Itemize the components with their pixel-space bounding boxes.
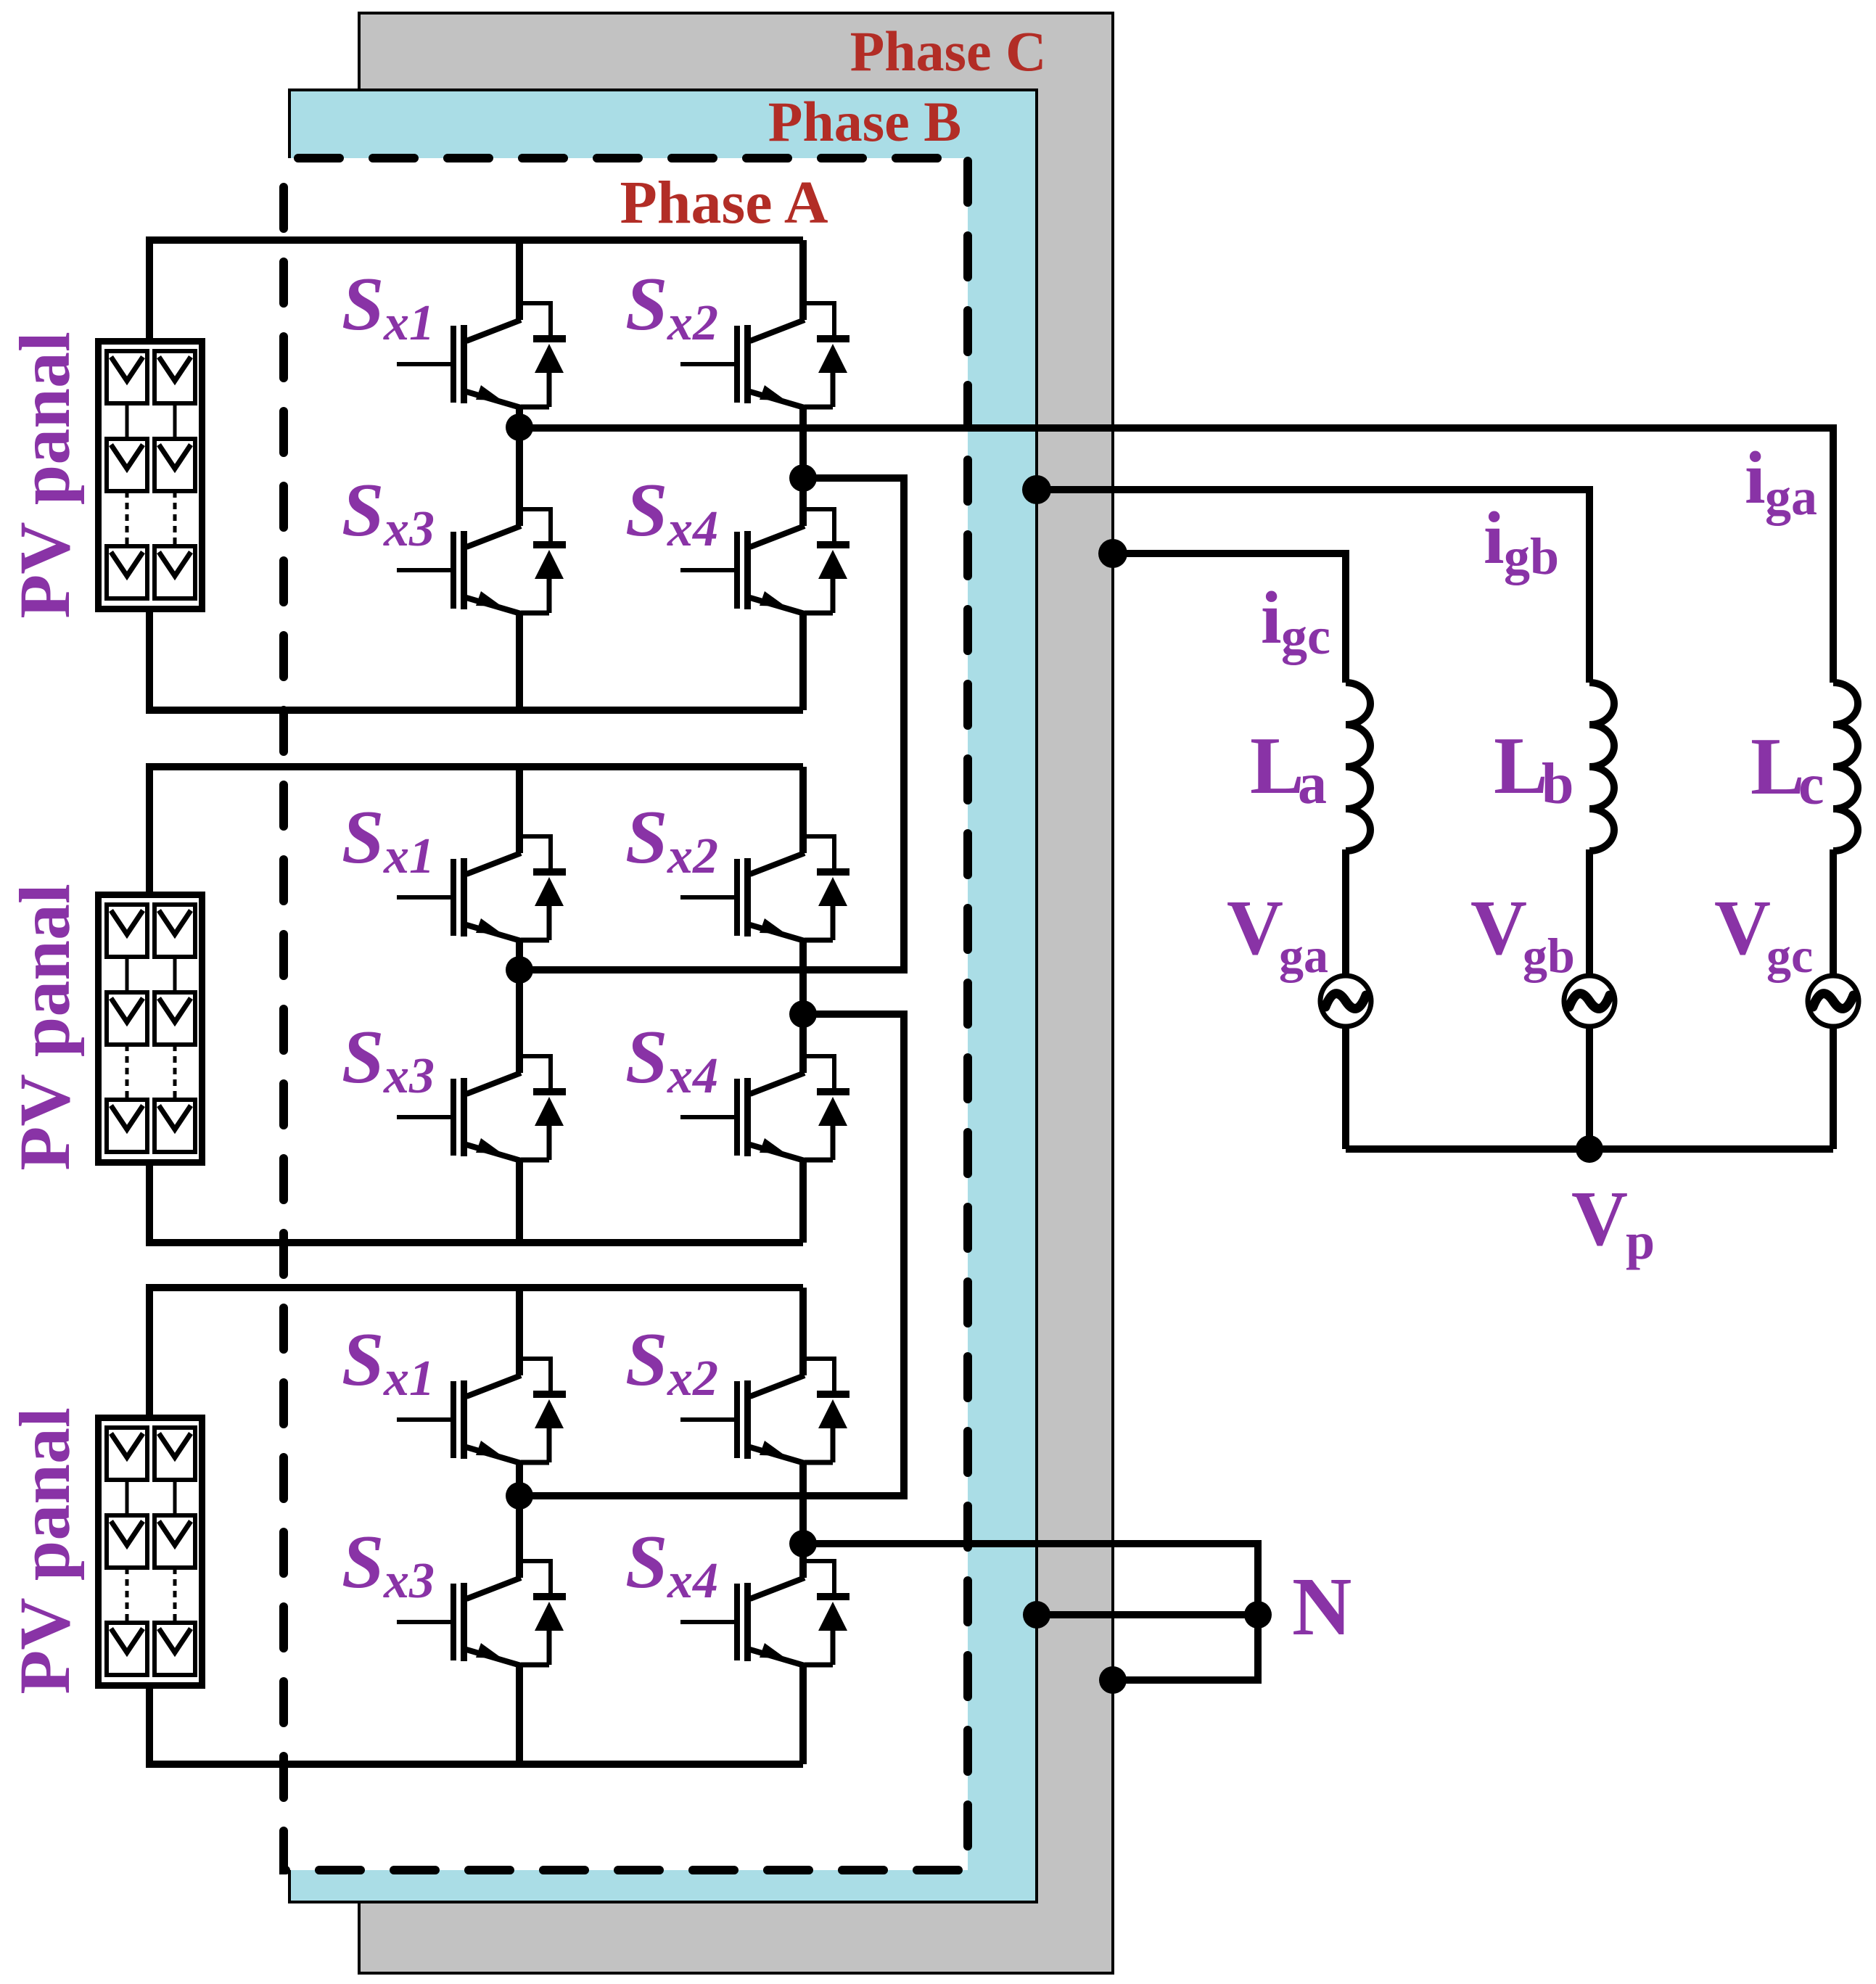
node: phase B neutral tap — [1023, 1601, 1050, 1629]
label Sx2 cell 1 — [625, 261, 718, 351]
svg-text:S: S — [342, 1317, 384, 1401]
svg-text:S: S — [625, 794, 667, 879]
svg-text:S: S — [625, 467, 667, 552]
wire: phase C output to inductor — [1113, 553, 1346, 683]
label Vp — [1571, 1176, 1655, 1270]
svg-text:a: a — [1298, 752, 1327, 816]
svg-text:L: L — [1250, 721, 1304, 811]
svg-text:S: S — [625, 1317, 667, 1401]
svg-text:x1: x1 — [383, 1351, 435, 1407]
wire: DC- rail cell 3 — [149, 1687, 803, 1764]
svg-text:S: S — [342, 467, 384, 552]
svg-text:V: V — [1470, 885, 1527, 971]
node: cell 1 left midpoint — [506, 413, 533, 441]
svg-text:S: S — [625, 261, 667, 346]
svg-text:L: L — [1494, 721, 1548, 811]
label La — [1250, 721, 1327, 816]
IGBT Sx1 cell 2 — [397, 836, 566, 941]
svg-text:ga: ga — [1765, 468, 1817, 526]
svg-text:x4: x4 — [667, 501, 718, 557]
wire: right leg segments cell 1 — [799, 240, 807, 710]
Phase B region — [289, 90, 1037, 1902]
IGBT Sx3 cell 2 — [397, 1056, 566, 1161]
svg-text:S: S — [342, 794, 384, 879]
svg-text:i: i — [1261, 577, 1282, 659]
svg-text:V: V — [1227, 885, 1283, 971]
wire: phase B output to inductor — [1037, 490, 1589, 683]
svg-text:gc: gc — [1766, 928, 1813, 983]
label Sx3 cell 3 — [342, 1519, 435, 1609]
svg-text:Phase A: Phase A — [620, 169, 828, 236]
svg-text:PV panal: PV panal — [4, 884, 85, 1171]
wire: DC+ rail cell 3 — [149, 1288, 803, 1415]
wire: left leg segments cell 1 — [516, 240, 523, 710]
Phase C region — [359, 13, 1113, 1973]
IGBT Sx2 cell 2 — [680, 836, 849, 941]
svg-text:PV panal: PV panal — [4, 332, 85, 619]
svg-text:gb: gb — [1504, 527, 1559, 585]
svg-text:S: S — [625, 1014, 667, 1099]
svg-text:S: S — [625, 1519, 667, 1604]
label Sx4 cell 1 — [625, 467, 718, 557]
IGBT Sx3 cell 1 — [397, 509, 566, 614]
svg-text:x1: x1 — [383, 828, 435, 884]
IGBT Sx1 cell 3 — [397, 1359, 566, 1463]
node: cell 2 left midpoint — [506, 956, 533, 984]
label Sx1 cell 3 — [342, 1317, 435, 1407]
wire: right leg segments cell 2 — [799, 767, 807, 1243]
label Sx1 cell 2 — [342, 794, 435, 884]
IGBT Sx4 cell 1 — [680, 509, 849, 614]
svg-text:S: S — [342, 1014, 384, 1099]
svg-text:i: i — [1484, 497, 1505, 580]
label Vgc — [1714, 885, 1813, 983]
svg-text:x2: x2 — [667, 828, 718, 884]
node: phase C tap — [1098, 539, 1127, 568]
svg-text:gb: gb — [1523, 928, 1575, 983]
AC source Vga — [1320, 976, 1371, 1026]
node: cell 3 left midpoint — [506, 1482, 533, 1510]
label Vgb — [1470, 885, 1575, 983]
svg-text:x3: x3 — [383, 1048, 435, 1104]
node: phase B tap — [1022, 475, 1051, 504]
node: cell 3 right midpoint — [789, 1530, 817, 1557]
wire: V gc to neutral rail — [1830, 1026, 1837, 1149]
wire: phase A output to inductor — [519, 428, 1833, 683]
label Sx1 cell 1 — [342, 261, 435, 351]
label Sx4 cell 2 — [625, 1014, 718, 1104]
PV panel 3 — [99, 1418, 202, 1686]
wire: DC- rail cell 2 — [149, 1163, 803, 1243]
svg-text:ga: ga — [1279, 928, 1328, 983]
wire: grid neutral rail — [1346, 1145, 1833, 1153]
label iga — [1745, 437, 1817, 526]
wire: La to source — [1342, 849, 1349, 977]
label Vga — [1227, 885, 1328, 983]
wire: neutral branch to phase B rail — [1037, 1611, 1258, 1618]
svg-text:PV panal: PV panal — [4, 1407, 85, 1695]
inductor La — [1346, 683, 1370, 851]
svg-text:x3: x3 — [383, 1553, 435, 1609]
svg-text:x4: x4 — [667, 1553, 718, 1609]
Phase A region (dashed) — [284, 158, 968, 1870]
node: cell 1 right midpoint — [789, 464, 817, 492]
svg-text:V: V — [1714, 885, 1771, 971]
inductor Lb — [1589, 683, 1614, 851]
label Sx4 cell 3 — [625, 1519, 718, 1609]
label Sx2 cell 3 — [625, 1317, 718, 1407]
wire: DC+ rail cell 2 — [149, 767, 803, 892]
svg-text:c: c — [1798, 753, 1824, 817]
svg-text:gc: gc — [1281, 607, 1330, 665]
svg-text:V: V — [1571, 1176, 1628, 1262]
svg-text:x4: x4 — [667, 1048, 718, 1104]
node: N junction — [1244, 1601, 1272, 1629]
svg-text:i: i — [1745, 437, 1766, 519]
svg-text:N: N — [1292, 1560, 1352, 1652]
label igb — [1484, 497, 1559, 585]
AC source Vgb — [1564, 976, 1615, 1026]
IGBT Sx4 cell 3 — [680, 1561, 849, 1666]
wire: cell2 right mid to cell3 left mid — [519, 1014, 904, 1496]
svg-text:x1: x1 — [383, 295, 435, 351]
label Sx2 cell 2 — [625, 794, 718, 884]
svg-text:L: L — [1750, 722, 1805, 812]
wire: DC+ rail cell 1 — [149, 240, 803, 338]
wire: V gb to neutral rail — [1586, 1026, 1593, 1149]
AC source Vgc — [1808, 976, 1859, 1026]
wire: Lb to source — [1586, 849, 1593, 977]
label igc — [1261, 577, 1330, 665]
node: cell 2 right midpoint — [789, 1000, 817, 1028]
node: Vp junction — [1576, 1135, 1603, 1163]
svg-text:x3: x3 — [383, 501, 435, 557]
IGBT Sx3 cell 3 — [397, 1561, 566, 1666]
wire: cell1 right mid to cell2 left mid — [519, 478, 904, 970]
wire: right leg segments cell 3 — [799, 1288, 807, 1764]
svg-text:x2: x2 — [667, 1351, 718, 1407]
IGBT Sx2 cell 3 — [680, 1359, 849, 1463]
label Sx3 cell 1 — [342, 467, 435, 557]
inductor Lc — [1833, 683, 1858, 851]
label Lc — [1750, 722, 1824, 817]
wire: left leg segments cell 3 — [516, 1288, 523, 1764]
wire: cell3 right mid to neutral N — [803, 1544, 1258, 1680]
svg-text:Phase C: Phase C — [850, 20, 1047, 83]
svg-text:p: p — [1626, 1212, 1655, 1270]
wire: Lc to source — [1830, 849, 1837, 977]
PV panel 2 — [99, 895, 202, 1163]
PV panel 1 — [99, 342, 202, 609]
wire: DC- rail cell 1 — [149, 612, 803, 710]
label Sx3 cell 2 — [342, 1014, 435, 1104]
node: phase C neutral tap — [1099, 1666, 1127, 1694]
svg-text:b: b — [1542, 752, 1574, 816]
svg-text:Phase B: Phase B — [768, 90, 962, 153]
IGBT Sx1 cell 1 — [397, 303, 566, 408]
IGBT Sx4 cell 2 — [680, 1056, 849, 1161]
IGBT Sx2 cell 1 — [680, 303, 849, 408]
label Lb — [1494, 721, 1574, 816]
wire: left leg segments cell 2 — [516, 767, 523, 1243]
wire: V ga to neutral rail — [1342, 1026, 1349, 1149]
svg-text:S: S — [342, 261, 384, 346]
svg-text:S: S — [342, 1519, 384, 1604]
svg-text:x2: x2 — [667, 295, 718, 351]
